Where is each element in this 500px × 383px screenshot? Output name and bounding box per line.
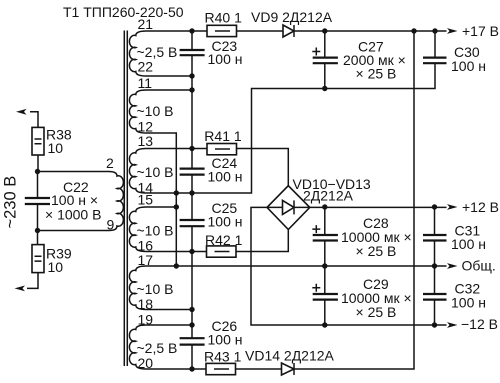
svg-text:9: 9	[107, 217, 115, 233]
svg-text:Общ.: Общ.	[462, 258, 496, 274]
svg-text:× 25 В: × 25 В	[356, 243, 397, 259]
svg-text:100 н: 100 н	[208, 169, 243, 185]
svg-text:+12 В: +12 В	[462, 199, 499, 215]
svg-text:−12 В: −12 В	[461, 316, 498, 332]
svg-text:~10 В: ~10 В	[137, 103, 174, 119]
svg-text:~10 В: ~10 В	[137, 223, 174, 239]
svg-text:~230 В: ~230 В	[2, 176, 20, 229]
svg-text:21: 21	[138, 16, 154, 32]
svg-text:100 н: 100 н	[451, 58, 486, 74]
svg-text:10: 10	[48, 140, 64, 156]
svg-text:Т1 ТПП260-220-50: Т1 ТПП260-220-50	[63, 4, 184, 20]
svg-text:VD9 2Д212А: VD9 2Д212А	[251, 9, 333, 25]
svg-text:20: 20	[138, 355, 154, 371]
svg-text:19: 19	[138, 312, 154, 328]
svg-text:22: 22	[138, 59, 154, 75]
svg-text:100 н: 100 н	[208, 332, 243, 348]
svg-text:+17 В: +17 В	[462, 23, 499, 39]
svg-text:2Д212А: 2Д212А	[303, 188, 354, 204]
svg-text:100 н: 100 н	[451, 295, 486, 311]
svg-text:× 25 В: × 25 В	[356, 66, 397, 82]
svg-text:13: 13	[138, 133, 154, 149]
svg-text:R41 1: R41 1	[204, 128, 242, 144]
svg-text:~10 В: ~10 В	[137, 164, 174, 180]
svg-text:17: 17	[138, 252, 154, 268]
svg-text:~2,5 В: ~2,5 В	[137, 340, 178, 356]
svg-text:10: 10	[48, 259, 64, 275]
svg-text:× 1000 В: × 1000 В	[45, 207, 101, 223]
svg-text:15: 15	[138, 192, 154, 208]
svg-text:100 н: 100 н	[451, 236, 486, 252]
svg-text:R43 1: R43 1	[204, 349, 242, 365]
svg-text:11: 11	[138, 75, 153, 91]
svg-text:100 н: 100 н	[208, 51, 243, 67]
svg-text:× 25 В: × 25 В	[356, 304, 397, 320]
svg-text:R42 1: R42 1	[205, 232, 243, 248]
svg-text:2: 2	[106, 155, 114, 171]
svg-text:100 н: 100 н	[208, 214, 243, 230]
svg-text:18: 18	[138, 296, 154, 312]
svg-text:VD14 2Д212А: VD14 2Д212А	[245, 348, 335, 364]
svg-text:~10 В: ~10 В	[137, 281, 174, 297]
svg-text:R40 1: R40 1	[205, 10, 243, 26]
